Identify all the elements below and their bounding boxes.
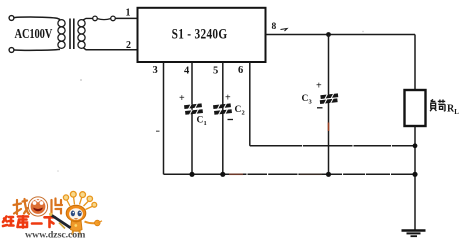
capacitor C2 (on pin 5 line): [213, 103, 232, 115]
label AC100V: [15, 26, 53, 42]
svg-text:+: +: [225, 93, 231, 104]
capacitor C1 (on pin 4 line): [184, 103, 203, 115]
watermark: magnifier handle: [49, 213, 71, 229]
pin label 5: [213, 66, 218, 77]
svg-text:AC100V: AC100V: [15, 26, 53, 42]
watermark: orange text "zhao" (find): [14, 199, 30, 214]
svg-text:C: C: [302, 94, 309, 104]
junction: ground bus meets load line: [412, 172, 417, 177]
junction: C3 top on output wire: [326, 32, 331, 37]
ground bus wire (pins 3,4,5 common): [164, 173, 416, 175]
svg-text:3: 3: [153, 65, 158, 76]
svg-text:1: 1: [126, 8, 131, 19]
C3 polarity +: [316, 81, 322, 92]
svg-text:4: 4: [184, 66, 190, 77]
svg-text:www.dzsc.com: www.dzsc.com: [25, 230, 86, 240]
C2 polarity -: [228, 119, 234, 121]
pin label 8: [272, 22, 277, 32]
watermark: www.dzsc.com: [25, 230, 86, 240]
junction: pin 4 line on ground bus: [189, 172, 194, 177]
svg-text:C: C: [235, 105, 242, 115]
svg-text:1: 1: [204, 120, 207, 127]
wire: switch to pin 1: [115, 17, 137, 19]
stray scan speck: [156, 131, 160, 133]
load label (Chinese: fu-he) R_L: [430, 99, 445, 111]
wire: pin 6 down: [249, 62, 251, 146]
pin label 2: [126, 40, 131, 51]
svg-text:2: 2: [126, 40, 131, 51]
wire: pin 3 down and to ground bus: [163, 62, 165, 174]
watermark: mascot head: [66, 205, 86, 221]
svg-text:8: 8: [272, 22, 277, 32]
svg-text:3: 3: [309, 99, 313, 106]
wire: output wire corner down to load: [414, 35, 416, 91]
ground: [402, 231, 426, 237]
wire: top terminal to transformer primary: [14, 17, 60, 19]
wire: pin 8 output to load: [266, 34, 416, 36]
output arrow mark: [281, 29, 288, 32]
watermark: mascot body: [71, 221, 83, 236]
capacitor C3: [320, 93, 339, 105]
C2 value label: [235, 105, 245, 117]
wire: sag between switch contacts: [97, 19, 110, 20]
terminal (AC input, bottom): [9, 48, 14, 53]
svg-text:L: L: [454, 108, 459, 116]
C3 polarity -: [317, 107, 323, 109]
C1 polarity +: [179, 93, 185, 104]
pin label 6: [238, 65, 243, 76]
watermark: cartoon face (xin): [28, 197, 47, 216]
svg-text:6: 6: [238, 65, 243, 76]
svg-text:5: 5: [213, 66, 218, 77]
op-amp / regulator IC U1 SI-3240G body: [138, 8, 266, 62]
terminal (AC input, top): [9, 16, 14, 21]
scan artifacts on wires (decorative tint and breaks): [57, 31, 392, 176]
svg-text:S1 - 3240G: S1 - 3240G: [172, 25, 228, 42]
watermark: mascot crown bulbs: [63, 191, 96, 209]
wire: load to ground: [414, 126, 416, 231]
switch contact (left): [93, 16, 98, 21]
svg-text:2: 2: [242, 110, 245, 117]
wire: secondary top to switch contact: [83, 18, 93, 20]
transformer T secondary winding: [78, 20, 85, 49]
junction: C3 bottom on ground bus: [326, 172, 331, 177]
wire: bottom terminal to transformer primary: [14, 48, 60, 51]
pin label 3: [153, 65, 158, 76]
svg-text:+: +: [316, 81, 322, 92]
pin label 1: [126, 8, 131, 19]
C3 value label: [302, 94, 313, 106]
wire: pin 6 horizontal run to load line: [250, 145, 415, 147]
switch contact (right): [111, 16, 116, 21]
watermark: mascot arm and ball: [85, 220, 103, 226]
wire: C3 upper lead: [328, 35, 330, 96]
watermark: red text "wei ku yi xia" (dzsc slogan): [3, 216, 55, 228]
svg-text:C: C: [197, 116, 204, 126]
C1 value label: [197, 116, 207, 128]
transformer T core: [70, 19, 74, 50]
wire: pin 4 down: [191, 62, 193, 174]
C2 polarity +: [225, 93, 231, 104]
junction: pin6 run meets load line: [413, 143, 418, 148]
watermark: orange text "pian" (chip): [52, 199, 63, 214]
wire: secondary bottom to pin 2: [83, 48, 137, 50]
wire: pin 5 down: [222, 62, 224, 174]
pin label 4: [184, 66, 190, 77]
load resistor RL body: [405, 90, 426, 126]
svg-text:+: +: [179, 93, 185, 104]
wire: C3 lower lead to ground bus: [328, 103, 330, 174]
junction: pin 5 line on ground bus: [220, 172, 225, 177]
IC label SI-3240G: [172, 25, 228, 42]
transformer T primary winding: [58, 20, 65, 49]
